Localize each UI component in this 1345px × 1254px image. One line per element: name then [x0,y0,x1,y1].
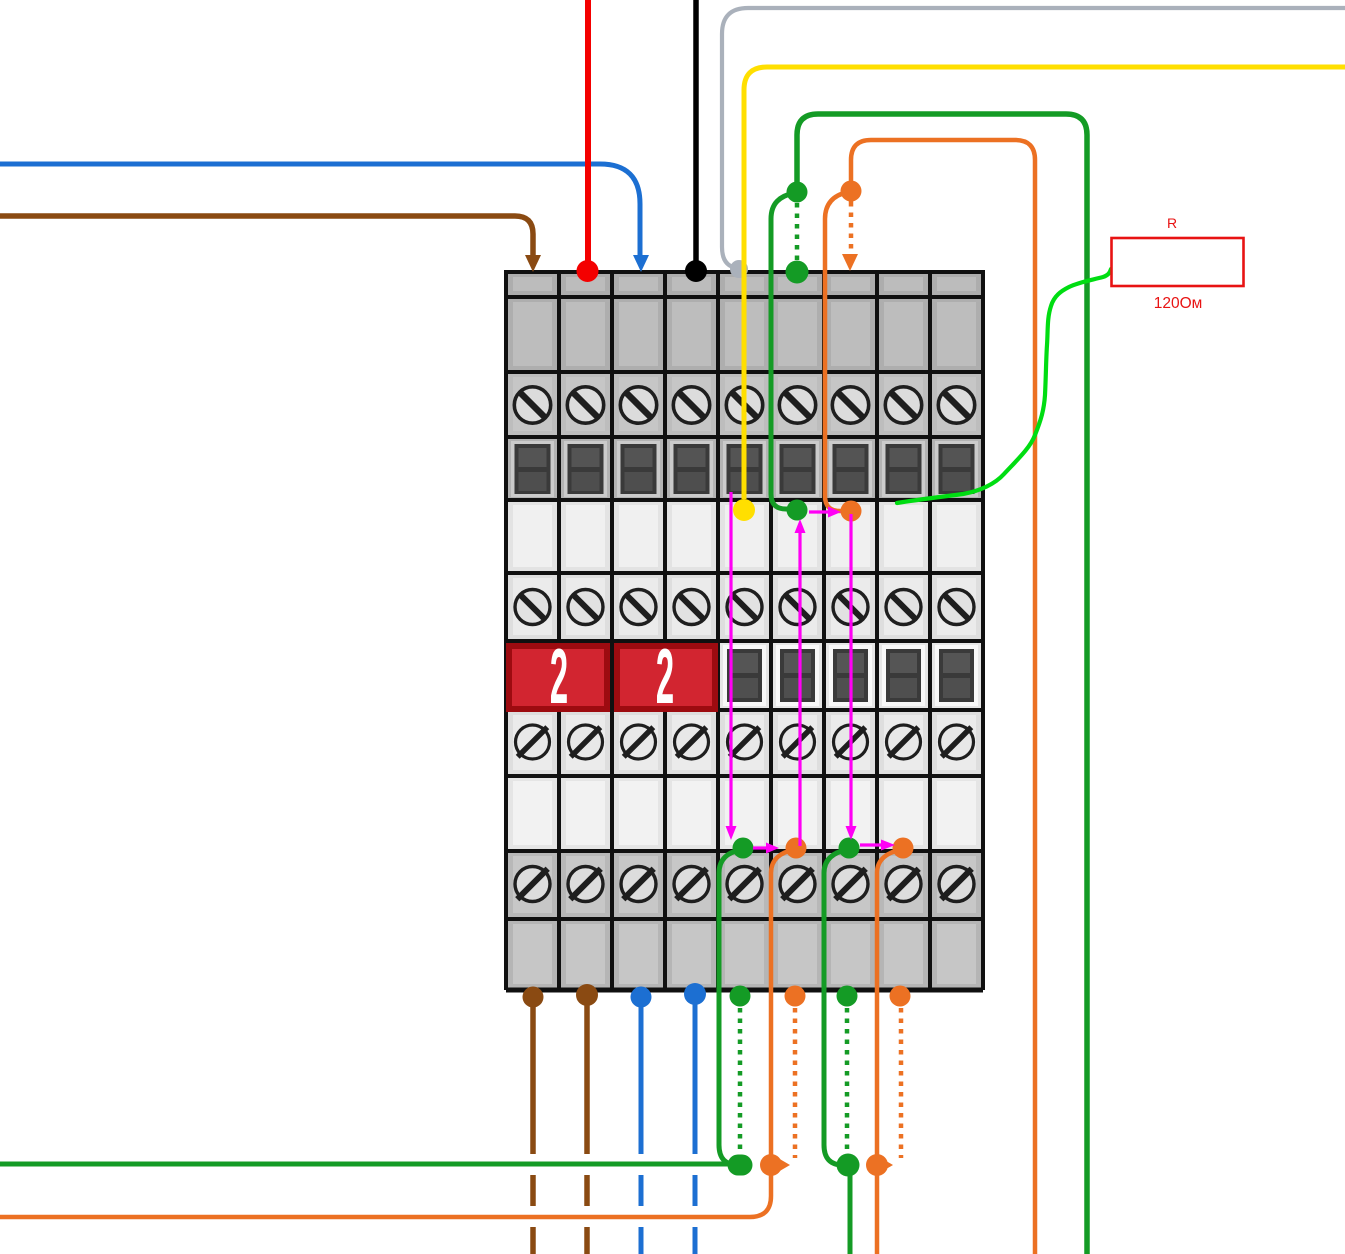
svg-text:2: 2 [656,633,674,720]
svg-text:R: R [1167,215,1177,231]
svg-text:120Ом: 120Ом [1154,295,1203,312]
svg-text:2: 2 [550,633,568,720]
